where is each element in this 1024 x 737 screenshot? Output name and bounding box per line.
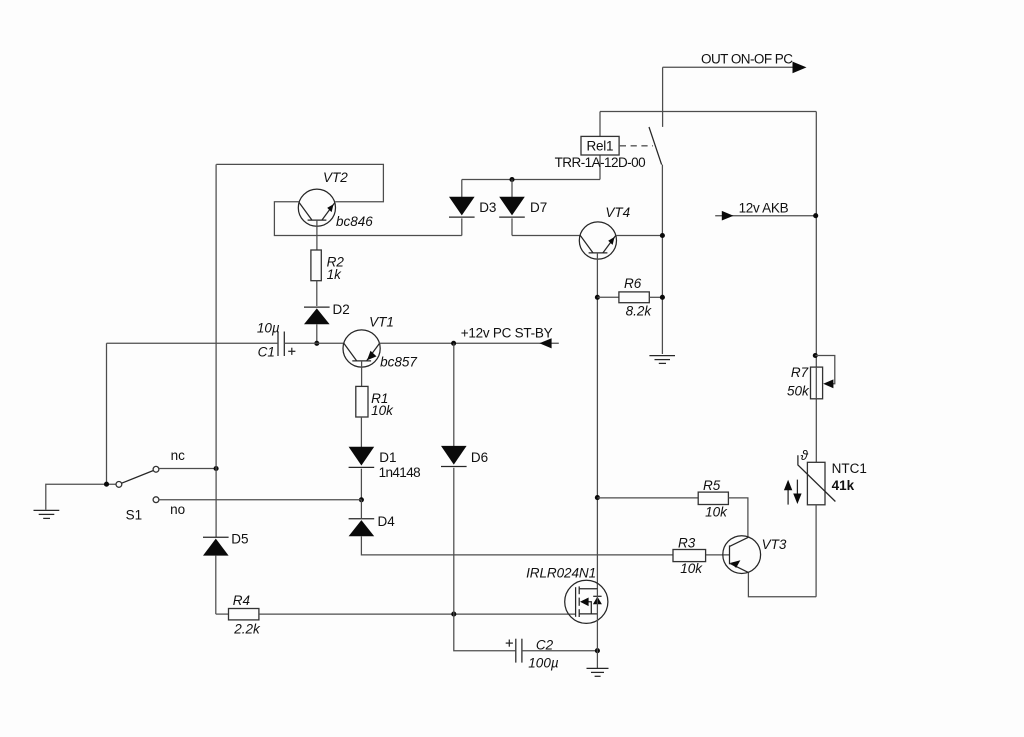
transistor VT3 [723, 536, 761, 574]
wire R5 right to VT3 collector [728, 498, 748, 538]
node R7 top junction [813, 353, 818, 358]
svg-text:Rel1: Rel1 [587, 139, 614, 154]
wire C2 to source junction [522, 650, 598, 652]
svg-text:D7: D7 [530, 200, 547, 215]
node D6 bottom junction [451, 612, 456, 617]
wire R6 left [597, 296, 619, 298]
svg-text:12v AKB: 12v AKB [739, 200, 789, 215]
switch S1 ground wire [46, 484, 116, 510]
switch S1 pivot contact [116, 482, 122, 488]
thermistor NTC1 diagonal [798, 455, 836, 501]
arrow NTC down [796, 480, 798, 497]
node R6 right junction [660, 295, 665, 300]
MOSFET IRLR024N1 [565, 580, 608, 651]
wire R5 left [597, 497, 698, 499]
svg-text:10k: 10k [680, 561, 703, 576]
capacitor C2 [515, 639, 517, 663]
svg-text:D1: D1 [379, 450, 396, 465]
svg-text:8.2k: 8.2k [626, 304, 653, 319]
switch S1 no contact [153, 497, 159, 503]
switch S1 nc contact [153, 466, 159, 472]
svg-text:TRR-1A-12D-00: TRR-1A-12D-00 [555, 155, 646, 170]
resistor R3 [673, 550, 706, 562]
svg-text:C1: C1 [258, 345, 275, 360]
thermistor NTC1 body [807, 462, 825, 505]
svg-text:10k: 10k [705, 504, 728, 519]
ground S1 [34, 510, 60, 518]
node 12v AKB junction [813, 213, 818, 218]
svg-text:nc: nc [171, 448, 186, 463]
wire VT3 emitter to NTC bottom [748, 572, 816, 596]
diode D2 [304, 306, 330, 308]
node S1 common junction [104, 482, 109, 487]
svg-text:10k: 10k [371, 403, 394, 418]
wire OUT vertical to relay contact [662, 67, 664, 127]
node D7 top junction [509, 177, 514, 182]
wire VT2 loop top [216, 164, 383, 201]
wire R4 to MOSFET gate [259, 613, 576, 615]
svg-text:R3: R3 [678, 536, 696, 551]
wire right bus vertical [815, 112, 817, 463]
node R5 left junction [595, 495, 600, 500]
svg-text:R5: R5 [703, 478, 721, 493]
svg-text:R6: R6 [624, 276, 642, 291]
resistor R5 [698, 492, 728, 504]
svg-text:S1: S1 [126, 508, 143, 523]
wire C1 rail left [107, 342, 278, 344]
wire no to D1/D4 junction [159, 499, 361, 501]
wire VT4 right [616, 235, 663, 237]
svg-text:VT1: VT1 [369, 314, 394, 329]
arrow OUT ON-OF PC [793, 62, 807, 74]
svg-text:D4: D4 [378, 514, 396, 529]
node source junction [595, 648, 600, 653]
capacitor C1 [277, 332, 279, 357]
svg-text:50k: 50k [787, 383, 810, 398]
svg-text:2.2k: 2.2k [233, 621, 261, 636]
svg-text:NTC1: NTC1 [832, 461, 867, 476]
svg-text:D2: D2 [333, 302, 350, 317]
arrow +12v PC ST-BY [539, 338, 551, 348]
node no/D1/D4 junction [359, 497, 364, 502]
svg-text:D5: D5 [231, 532, 248, 547]
transistor VT2 [298, 189, 335, 250]
wire 12v AKB [715, 215, 816, 217]
wire R7 wiper loop [815, 356, 835, 384]
svg-text:IRLR024N1: IRLR024N1 [526, 566, 596, 581]
wire C1 to VT1 [284, 342, 344, 344]
wire OUT horizontal [663, 66, 799, 68]
wire nc to left bus [159, 468, 216, 470]
arrow R7 wiper [823, 379, 833, 388]
arrow NTC up [787, 487, 789, 505]
node VT4 right junction [660, 233, 665, 238]
transistor VT4 [579, 222, 616, 259]
wire D3-D7 top rail [462, 179, 600, 181]
wire left bus vertical [215, 164, 217, 537]
diode D4 [349, 518, 375, 520]
wire NTC bottom vertical [815, 505, 817, 597]
wire left vertical C1 to S1 [106, 343, 108, 484]
ground MOSFET source [587, 668, 609, 676]
node nc junction [214, 466, 219, 471]
svg-text:1k: 1k [327, 267, 343, 282]
relay contact blade [649, 127, 662, 165]
wire VT4 base vertical (mid bus) [596, 253, 598, 589]
wire VT1 to +12v [380, 342, 559, 344]
resistor R2 [311, 250, 321, 281]
relay Rel1 box [581, 136, 619, 155]
node +12v junction [451, 341, 456, 346]
svg-text:D3: D3 [479, 200, 496, 215]
svg-text:VT2: VT2 [323, 170, 348, 185]
svg-text:10µ: 10µ [257, 320, 280, 335]
wire contact bottom vertical to ground [661, 165, 663, 354]
diode D1 [349, 447, 375, 466]
svg-text:VT4: VT4 [605, 205, 630, 220]
wire D6 junction down to C2 [454, 614, 515, 651]
resistor R6 [619, 292, 649, 303]
switch S1 blade [122, 471, 154, 484]
svg-text:D6: D6 [471, 450, 488, 465]
diode D3 [461, 180, 463, 198]
dashed link Rel1 to contact [620, 145, 653, 147]
wire R6 right [649, 296, 662, 298]
svg-text:100µ: 100µ [528, 656, 559, 671]
wire top rail Rel1 to right bus [600, 111, 816, 113]
wire D7 to VT4 [512, 235, 580, 237]
svg-text:1n4148: 1n4148 [379, 465, 421, 480]
wire R3 rail to VT3 [706, 554, 730, 556]
svg-text:R7: R7 [791, 365, 809, 380]
wire R2 to D2 [316, 281, 318, 306]
svg-text:ϑ: ϑ [801, 448, 809, 463]
svg-text:no: no [170, 502, 185, 517]
resistor R4 [229, 609, 259, 620]
svg-text:+12v PC ST-BY: +12v PC ST-BY [461, 326, 553, 341]
transistor VT1 [343, 330, 380, 387]
svg-text:bc846: bc846 [336, 214, 373, 229]
resistor R1 [356, 386, 368, 417]
arrow 12v AKB [722, 211, 734, 221]
diode D5 [203, 536, 229, 538]
svg-text:OUT ON-OF PC: OUT ON-OF PC [701, 51, 793, 66]
node R6 left junction [595, 295, 600, 300]
wire VT2 left loop [274, 202, 461, 236]
wire MOSFET source to ground [596, 651, 598, 668]
svg-text:bc857: bc857 [380, 355, 417, 370]
svg-text:VT3: VT3 [762, 537, 787, 552]
diode D6 [453, 343, 455, 446]
diode D7 [511, 180, 513, 198]
node D2 bottom junction [314, 341, 319, 346]
wire to R4 [216, 613, 229, 615]
wire D4 bottom to R3 rail [361, 536, 673, 555]
ground relay contact [649, 356, 675, 364]
svg-text:41k: 41k [832, 478, 855, 493]
wire R1 to D1 [360, 417, 362, 448]
svg-text:R4: R4 [233, 593, 250, 608]
wire Rel1 coil vertical [599, 112, 601, 180]
potentiometer R7 [811, 367, 823, 399]
